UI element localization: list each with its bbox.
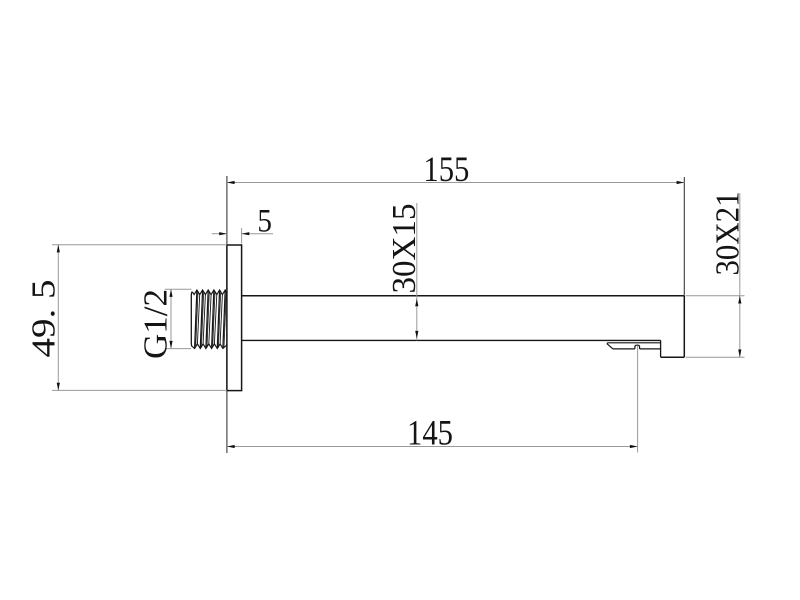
- svg-text:30X21: 30X21: [710, 192, 747, 276]
- G1/2 threaded inlet pipe: [191, 290, 227, 349]
- dimension 30X15 (arm section): [386, 203, 423, 340]
- dimension 30X21 (outlet end section): [686, 192, 747, 358]
- flange (wall plate, side view): [227, 245, 242, 391]
- svg-text:30X15: 30X15: [386, 204, 423, 294]
- svg-text:145: 145: [407, 413, 453, 453]
- svg-text:155: 155: [423, 149, 469, 189]
- svg-text:5: 5: [257, 204, 272, 240]
- dimension 49.5 (flange height): [26, 245, 227, 391]
- spout arm body: [242, 296, 685, 357]
- dimension 155 (top overall): [227, 149, 684, 296]
- wall extension line through flange left edge: [226, 176, 228, 453]
- dimension 145 (to aerator notch): [227, 346, 638, 453]
- aerator plate under spout tip: [607, 343, 660, 349]
- dimension G1/2 (thread): [138, 289, 192, 359]
- svg-text:G1/2: G1/2: [138, 289, 175, 359]
- dimension 5 (flange thickness): [212, 204, 273, 244]
- svg-text:49. 5: 49. 5: [26, 280, 63, 358]
